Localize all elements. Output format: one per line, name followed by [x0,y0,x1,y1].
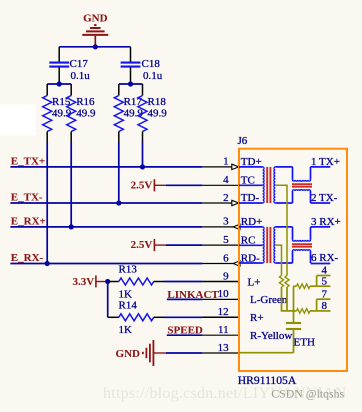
resistor R15 49.9 [43,84,72,143]
pin stub 2 TX- [311,202,331,204]
transformer secondary winding (right coil) [274,227,293,263]
power port 2.5V [131,179,166,191]
resistor R13 1K [108,264,165,301]
pin 9 line [202,281,239,283]
capacitor C18 [121,47,163,84]
ground GND (top earth symbol) [82,13,108,47]
wire R13 to pin 9 [165,281,203,283]
svg-text:ETH: ETH [294,337,315,349]
svg-text:R16: R16 [76,96,95,108]
junction dot E_RX+ [69,224,74,229]
svg-text:J6: J6 [238,135,248,147]
svg-text:5: 5 [321,275,327,287]
svg-text:L+: L+ [248,276,261,288]
termination resistor (vertical, from T1 tap) [285,276,289,288]
wire cap to pin 13 (chassis) [239,352,294,354]
pin 12 line [202,316,239,318]
resistor R16 49.9 [67,84,96,143]
transformer core [267,227,270,263]
termination resistor (horizontal lower, to pins 7/8) [297,309,317,314]
svg-text:R13: R13 [119,264,138,276]
junction dot 3.3V node [105,279,110,284]
power port 2.5V [131,239,166,251]
wire taps down to common node [282,287,288,311]
bracket pins 4/5 [317,276,331,287]
svg-text:2.5V: 2.5V [131,179,153,191]
wire R15 bottom to E_RX- [46,143,48,264]
wire LINKACT [167,298,203,300]
svg-text:8: 8 [321,300,327,312]
common-mode choke windings [293,227,311,263]
pin 10 line [202,298,239,300]
svg-text:1 TX+: 1 TX+ [311,156,340,168]
wire centre tap T2 (olive) [275,245,281,275]
svg-text:7: 7 [321,288,327,300]
svg-text:2 TX-: 2 TX- [311,192,338,204]
transformer secondary winding (right coil) [274,167,293,203]
svg-text:R+: R+ [250,312,264,324]
svg-text:R-Yellow: R-Yellow [250,330,292,342]
wire GND to pin 13 [166,352,202,354]
resistor R14 1K [108,299,165,336]
pin (input arrow) into J6 at E_TX- row [202,202,231,204]
wire R14 to pin 12 [165,316,203,318]
junction dot at ground / top bus [93,44,98,49]
pin stub 3 RX+ [311,226,331,228]
svg-text:49.9: 49.9 [148,107,168,119]
resistor R18 49.9 [138,84,167,143]
bracket pins 7/8 [317,299,331,311]
svg-text:6 RX-: 6 RX- [311,252,339,264]
svg-text:E_RX+: E_RX+ [11,215,46,227]
svg-text:12: 12 [218,306,229,318]
connector J6 outline box [239,149,347,371]
svg-text:4: 4 [223,174,229,186]
wire top bus from C17 to C18 under ground [59,46,130,48]
wire E_RX+ row [10,226,202,228]
svg-text:E_TX+: E_TX+ [11,155,45,167]
transformer primary winding (left coil) [239,227,264,263]
wire centre tap T1 (olive) [275,185,287,275]
termination resistor (vertical, from T2 tap) [279,276,283,288]
junction dot E_RX- [45,261,50,266]
capacitor C17 [49,47,90,84]
wire R16 bottom to E_RX+ [70,143,72,227]
wire 2.5V to pin [166,184,202,186]
wire upper resistor drop through node to cap [293,286,295,322]
choke core [292,184,312,187]
common-mode choke windings [293,167,311,203]
wire SPEED [167,334,203,336]
svg-text:GND: GND [116,348,141,360]
capacitor (chassis, olive) [286,323,301,353]
svg-text:6: 6 [223,252,229,264]
wire common node bar [281,310,297,312]
wire R18 bottom to E_TX+ [142,143,144,167]
svg-text:5: 5 [223,234,229,246]
pin stub 6 RX- [311,263,331,265]
svg-text:13: 13 [218,342,230,354]
svg-text:GND: GND [83,13,108,25]
choke core [292,244,312,247]
svg-text:1K: 1K [119,324,133,336]
svg-text:C18: C18 [142,58,161,70]
svg-text:1: 1 [223,156,229,168]
pin TC/RC [202,244,239,246]
svg-text:3 RX+: 3 RX+ [311,216,341,228]
junction dot under C17 [57,81,62,86]
wire C18 junction to R17/R18 tops [119,83,143,85]
ground GND (pin13, rotated earth symbol) [116,340,166,366]
svg-text:C17: C17 [70,58,89,70]
pin (input arrow) into J6 at E_TX+ row [202,166,231,168]
wire E_TX+ row [10,166,202,168]
svg-text:0.1u: 0.1u [71,70,91,82]
svg-text:R18: R18 [148,96,167,108]
transformer core [267,167,270,203]
power port 3.3V [72,275,107,288]
pin (output arrow) out of J6 at E_RX+ row [202,226,233,228]
wire R17 bottom to E_TX- [118,143,120,204]
junction dot under C18 [128,81,133,86]
svg-text:2.5V: 2.5V [131,239,153,251]
wire E_RX- row [10,263,202,265]
svg-text:10: 10 [218,288,230,300]
termination resistor (horizontal upper, to pins 4/5) [294,284,317,289]
wire C17 junction to R15/R16 tops [47,83,71,85]
wire 3.3V node down to R14 [107,282,109,318]
svg-text:9: 9 [223,270,229,282]
decorative white patch (watermark box) is unlabeled-skip [0,105,36,136]
svg-text:CSDN @ltqshs: CSDN @ltqshs [271,387,344,401]
svg-text:2: 2 [223,192,229,204]
svg-text:3.3V: 3.3V [72,276,94,288]
pin TC/RC [202,184,239,186]
junction dot E_TX- [116,200,121,205]
pin 13 line [202,352,239,354]
svg-text:0.1u: 0.1u [143,70,163,82]
pin stub 1 TX+ [311,166,331,168]
pin 11 line [202,334,239,336]
transformer primary winding (left coil) [239,167,264,203]
junction dot E_TX+ [140,164,145,169]
svg-text:3: 3 [223,216,229,228]
svg-text:11: 11 [218,324,229,336]
svg-text:E_TX-: E_TX- [11,191,43,203]
wire E_TX- row [10,202,202,204]
svg-text:E_RX-: E_RX- [11,252,44,264]
pin (output arrow) out of J6 at E_RX- row [202,263,233,265]
resistor R17 49.9 [114,84,143,143]
svg-text:49.9: 49.9 [76,107,96,119]
wire 2.5V to pin [166,244,202,246]
svg-text:R14: R14 [119,299,138,311]
